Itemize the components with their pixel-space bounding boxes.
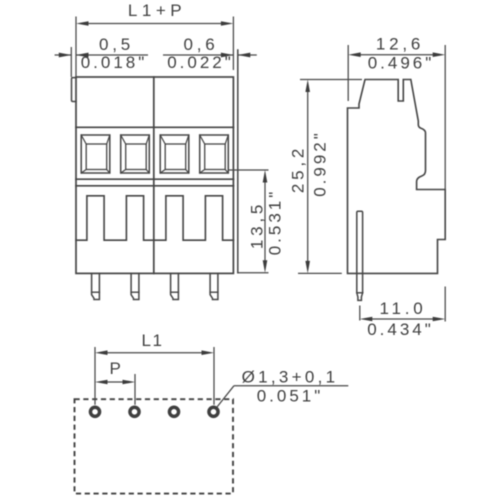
svg-text:25,2: 25,2 <box>289 145 308 193</box>
svg-text:0.992": 0.992" <box>311 130 330 197</box>
svg-text:0.022": 0.022" <box>167 53 234 72</box>
side view: housing profile outline <box>348 80 446 274</box>
front view: four solder pins <box>92 273 100 299</box>
front view: line under screw windows <box>76 178 233 180</box>
svg-text:0,5: 0,5 <box>99 35 134 54</box>
svg-text:0.496": 0.496" <box>368 54 435 73</box>
dimension 25,2 line with arrows <box>307 91 309 262</box>
front view: centre partition line between poles <box>153 77 155 273</box>
svg-text:0,6: 0,6 <box>183 35 218 54</box>
dimension L1 extension lines <box>94 347 96 405</box>
dimension 12,6 line with arrows <box>359 54 434 56</box>
dimension 0,6 line with outside arrows <box>163 54 233 56</box>
dimension 13,5 bottom extension line <box>238 272 269 274</box>
dimension 11.0 extension lines <box>359 306 361 321</box>
dimension L1+P extension lines <box>75 17 77 78</box>
dimension 13,5 line with arrows <box>264 181 266 262</box>
svg-text:0.051": 0.051" <box>257 387 324 406</box>
svg-text:0.531": 0.531" <box>266 189 285 256</box>
dimension L1+P line with arrows <box>87 23 222 25</box>
svg-text:13,5: 13,5 <box>248 201 267 249</box>
dimension 12,6 extension lines <box>347 45 349 101</box>
front view: four screw clamp windows <box>81 135 110 173</box>
svg-text:L1: L1 <box>141 331 163 350</box>
drilling plan: four solder holes <box>90 407 99 416</box>
front view: wire entry section top line <box>76 185 233 187</box>
front view: castellated partition wave <box>76 196 233 240</box>
svg-text:0.018": 0.018" <box>81 53 148 72</box>
dimension P extension line <box>134 374 136 405</box>
dimension 11.0 line with arrows <box>371 318 434 320</box>
side view: solder pin <box>357 211 363 292</box>
hole diameter leader line <box>234 385 348 387</box>
dimension 0,5 extension line <box>70 47 72 77</box>
front view: terminal block housing outline <box>76 77 233 273</box>
dimension 25,2 bottom extension line <box>298 272 342 274</box>
svg-text:11.0: 11.0 <box>379 299 426 318</box>
svg-text:L1+P: L1+P <box>128 1 186 20</box>
svg-text:0.434": 0.434" <box>367 320 434 339</box>
dimension 25,2 top extension line <box>300 79 362 81</box>
dimension 0,5 line with outside arrows <box>55 54 72 56</box>
drilling plan: dashed PCB outline <box>75 399 234 493</box>
front view: right side flange line (0,6 wall) <box>237 50 239 273</box>
svg-text:12,6: 12,6 <box>376 35 424 54</box>
front view: left side flange tab (0,5 wall) <box>72 78 77 102</box>
dimension L1 line with arrows <box>106 352 203 354</box>
dimension 13,5 top extension line <box>228 169 269 171</box>
svg-text:P: P <box>110 359 123 378</box>
front view: clamp section top line <box>76 126 233 128</box>
svg-text:Ø1,3+0,1: Ø1,3+0,1 <box>242 368 339 387</box>
dimension P line with arrows <box>104 381 126 383</box>
